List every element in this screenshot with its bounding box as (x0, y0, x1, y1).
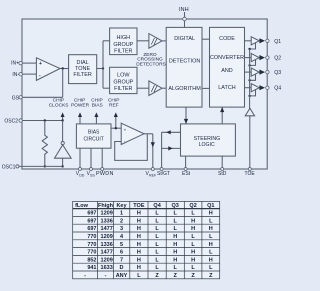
svg-text:IN+: IN+ (11, 61, 19, 67)
bias circuit block (76, 124, 111, 148)
wire St/GT vertical (161, 132, 163, 169)
table header text (75, 203, 214, 209)
svg-text:LATCH: LATCH (218, 85, 235, 91)
resistor oscillator (42, 121, 47, 167)
svg-text:ANY: ANY (116, 273, 128, 279)
wire high filter to zcd1 (137, 40, 149, 42)
svg-text:BIAS: BIAS (88, 129, 100, 135)
svg-text:TOE: TOE (245, 171, 256, 177)
wire OSC1 (19, 165, 63, 167)
svg-text:St/GT: St/GT (157, 171, 170, 177)
svg-text:H: H (191, 226, 195, 232)
svg-text:H: H (137, 257, 141, 263)
buffer TOE enable (245, 108, 254, 169)
label chip bias (91, 98, 102, 109)
svg-text:Q1: Q1 (274, 39, 281, 45)
svg-text:GROUP: GROUP (113, 42, 133, 48)
svg-text:H: H (137, 250, 141, 256)
label chip power (71, 98, 90, 109)
pin StD (218, 168, 227, 178)
svg-text:OSC1: OSC1 (2, 164, 16, 170)
svg-text:Q4: Q4 (274, 86, 281, 92)
svg-text:FILTER: FILTER (114, 86, 132, 92)
wire bias to ref op-amp (111, 127, 121, 129)
wire op-amp output to dial tone filter (60, 68, 69, 70)
pin ESt (182, 168, 191, 178)
svg-text:CONVERTER: CONVERTER (210, 55, 244, 61)
svg-text:H: H (137, 211, 141, 217)
op-amp reference buffer (121, 123, 144, 144)
svg-text:Q1: Q1 (207, 203, 214, 209)
svg-text:1: 1 (120, 211, 123, 217)
wire digital to steering with arrow (184, 107, 188, 124)
svg-text:AND: AND (221, 68, 233, 74)
svg-text:DETECTION: DETECTION (169, 59, 200, 65)
svg-text:fLow: fLow (75, 203, 89, 209)
svg-text:CLOCKS: CLOCKS (49, 103, 69, 109)
pin Q3 (266, 70, 282, 76)
wire steering output to St/GT with left arrow (162, 130, 181, 134)
svg-text:697: 697 (87, 218, 96, 224)
svg-text:BIAS: BIAS (92, 103, 103, 109)
svg-text:3: 3 (120, 226, 123, 232)
svg-text:H: H (173, 234, 177, 240)
svg-text:POWER: POWER (71, 103, 90, 109)
high group filter block (110, 28, 137, 55)
svg-text:Q3: Q3 (172, 203, 179, 209)
svg-text:H: H (191, 218, 195, 224)
pin OSC2 (4, 119, 22, 125)
node feedback junction (62, 67, 64, 69)
chip power arrow (78, 112, 82, 124)
wire zcd2 to digital block (162, 87, 166, 89)
op-amp input amplifier (36, 58, 60, 81)
svg-text:Fhigh: Fhigh (98, 203, 114, 209)
svg-text:H: H (173, 257, 177, 263)
svg-text:Q4: Q4 (153, 203, 161, 209)
svg-text:1477: 1477 (101, 250, 113, 256)
svg-text:Q2: Q2 (274, 56, 281, 62)
pin Q1 (266, 39, 282, 45)
svg-text:1209: 1209 (101, 234, 113, 240)
digital detection algorithm block (166, 27, 202, 107)
pin Q2 (266, 56, 282, 62)
svg-text:7: 7 (120, 257, 123, 263)
svg-text:770: 770 (87, 250, 96, 256)
svg-text:DIGITAL: DIGITAL (174, 36, 195, 42)
zero crossing detector comparator 2 (149, 81, 162, 96)
wire to low group filter (103, 87, 110, 89)
table row 4 (87, 234, 213, 240)
svg-text:REF: REF (109, 103, 119, 109)
table row 7 (87, 257, 212, 263)
svg-text:H: H (173, 250, 177, 256)
table row 2 (87, 218, 213, 224)
table row 3 (87, 226, 212, 232)
wire split vertical (102, 41, 104, 88)
pin GS (12, 95, 23, 101)
svg-text:ALGORITHM: ALGORITHM (168, 86, 201, 92)
svg-text:INH: INH (179, 7, 189, 13)
chip clocks arrow (61, 112, 65, 120)
svg-text:H: H (191, 250, 195, 256)
label chip ref (108, 98, 119, 109)
svg-text:H: H (191, 257, 195, 263)
table row 1 (87, 211, 212, 217)
label chip clocks (49, 98, 69, 109)
svg-text:D: D (120, 265, 124, 271)
output buffer Q4 (245, 84, 266, 98)
wire VDD (79, 148, 81, 169)
svg-text:DD: DD (79, 173, 85, 177)
svg-text:1336: 1336 (101, 242, 113, 248)
svg-text:1336: 1336 (101, 218, 113, 224)
wire feedback loop of ref op-amp (115, 134, 148, 161)
functional decode table (73, 201, 220, 278)
svg-text:697: 697 (87, 226, 96, 232)
svg-text:IN-: IN- (12, 72, 19, 78)
chip bias arrow (94, 112, 98, 124)
svg-text:+: + (39, 61, 42, 67)
pin IN+ (11, 61, 22, 67)
svg-text:LOGIC: LOGIC (199, 142, 215, 148)
wire zcd1 to digital block (162, 40, 166, 42)
wire digital to code lower (202, 87, 210, 89)
svg-text:LOW: LOW (117, 72, 130, 78)
svg-text:1209: 1209 (101, 211, 113, 217)
wire IN- (22, 73, 36, 75)
inverter oscillator (55, 121, 72, 167)
pin OSC1 (2, 164, 19, 170)
svg-text:FILTER: FILTER (73, 72, 91, 78)
wire steering to code with arrow (220, 107, 224, 124)
svg-text:H: H (209, 226, 213, 232)
svg-text:H: H (137, 265, 141, 271)
svg-text:Q3: Q3 (274, 70, 281, 76)
dial tone filter block (69, 55, 97, 84)
node chip ref junction (115, 127, 117, 129)
svg-text:+: + (124, 127, 127, 132)
svg-text:6: 6 (120, 250, 123, 256)
table row 5 (87, 242, 212, 248)
chip ref arrow (114, 112, 118, 128)
wire OSC2 horizontal (22, 120, 62, 122)
svg-text:CODE: CODE (219, 36, 235, 42)
table row 8 (87, 265, 213, 271)
zero crossing detector comparator 1 (149, 34, 162, 49)
wire StD (221, 156, 223, 169)
svg-text:2: 2 (120, 218, 123, 224)
wire St/GT input to steering with right arrow (162, 146, 181, 150)
svg-text:1209: 1209 (101, 257, 113, 263)
label zero crossing detectors (136, 52, 166, 67)
svg-text:StD: StD (218, 171, 227, 177)
svg-text:H: H (209, 257, 213, 263)
svg-text:GROUP: GROUP (113, 79, 133, 85)
svg-text:H: H (137, 234, 141, 240)
pin Q4 (266, 86, 282, 92)
output buffer Q2 (245, 54, 266, 67)
table row 6 (87, 250, 213, 256)
svg-text:FILTER: FILTER (114, 49, 132, 55)
svg-text:1633: 1633 (101, 265, 113, 271)
wire to high group filter (103, 40, 110, 42)
svg-text:H: H (209, 242, 213, 248)
svg-text:H: H (137, 218, 141, 224)
pin INH (179, 7, 189, 28)
svg-text:Q2: Q2 (189, 203, 196, 209)
chip outline (22, 19, 267, 169)
svg-text:H: H (137, 226, 141, 232)
svg-text:852: 852 (87, 257, 96, 263)
wire feedback vertical to GS (62, 69, 64, 98)
svg-text:-: - (105, 273, 107, 279)
wire GS horizontal (22, 96, 62, 98)
node resistor top junction (44, 119, 46, 121)
svg-text:697: 697 (87, 211, 96, 217)
wire digital to code upper (202, 38, 210, 40)
pin St/GT (157, 168, 170, 178)
svg-text:Key: Key (116, 203, 127, 209)
wire dial output (97, 68, 103, 70)
svg-text:1477: 1477 (101, 226, 113, 232)
svg-text:H: H (137, 242, 141, 248)
svg-text:PWDN: PWDN (96, 171, 114, 177)
wire ref op-amp output (144, 133, 153, 135)
wire enable bus (249, 49, 251, 109)
svg-text:GS: GS (12, 95, 20, 101)
wire IN+ (22, 62, 36, 64)
pin IN- (12, 72, 22, 78)
svg-text:CIRCUIT: CIRCUIT (84, 137, 104, 143)
node resistor bottom junction (44, 165, 46, 167)
pin PWDN (96, 168, 114, 178)
node inverter input junction (61, 165, 63, 167)
svg-text:TONE: TONE (75, 66, 90, 72)
output buffer Q1 (245, 37, 266, 51)
wire VREF vertical with down arrow (151, 134, 155, 169)
svg-text:OSC2: OSC2 (4, 119, 18, 125)
svg-text:HIGH: HIGH (117, 35, 131, 41)
wire low filter to zcd2 (137, 87, 149, 89)
output buffer Q3 (245, 68, 266, 82)
svg-text:-: - (84, 273, 86, 279)
svg-text:REF: REF (149, 173, 157, 177)
svg-text:770: 770 (87, 234, 96, 240)
pin TOE (245, 168, 256, 178)
svg-text:DETECTORS: DETECTORS (136, 61, 166, 67)
svg-text:H: H (173, 242, 177, 248)
pin VDD (76, 168, 85, 178)
code converter and latch block (210, 27, 245, 107)
svg-text:TOE: TOE (133, 203, 145, 209)
svg-text:770: 770 (87, 242, 96, 248)
wire VSS (90, 148, 92, 169)
wire ESt (185, 156, 187, 169)
node dial output junction (102, 67, 104, 69)
table row 9 (84, 273, 213, 279)
pin VSS (87, 168, 96, 178)
svg-text:SS: SS (90, 173, 95, 177)
svg-text:941: 941 (87, 265, 96, 271)
steering logic block (181, 124, 236, 156)
low group filter block (110, 67, 137, 93)
wire PWDN (101, 148, 103, 169)
node inverter output junction (61, 119, 63, 121)
svg-text:ESt: ESt (182, 171, 191, 177)
pin VREF (146, 168, 157, 178)
svg-text:H: H (209, 211, 213, 217)
svg-text:5: 5 (120, 242, 123, 248)
